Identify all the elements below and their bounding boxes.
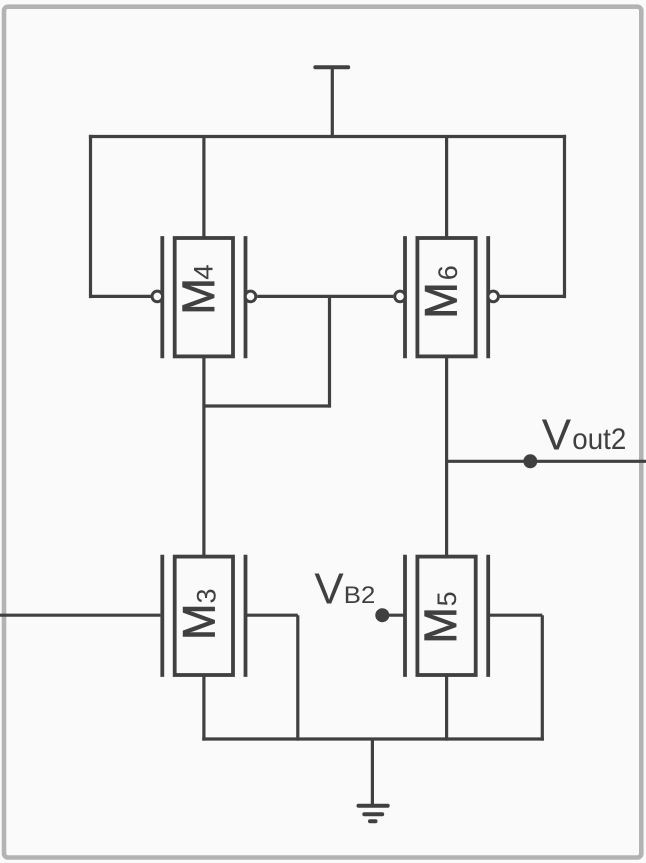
wire VB2 to M5 gate bbox=[382, 614, 404, 617]
svg-text:out2: out2 bbox=[572, 423, 626, 456]
wire M6 top lead (source to rail) bbox=[445, 137, 448, 238]
power VDD stem bbox=[331, 67, 334, 136]
wire M4 gate to M6 gate bbox=[257, 295, 393, 298]
svg-text:M: M bbox=[415, 607, 466, 643]
wire M5 source lead bbox=[445, 674, 448, 741]
ground stem bbox=[371, 739, 374, 806]
wire M3 source lead bbox=[202, 674, 205, 741]
wire left loop vertical bbox=[89, 135, 92, 298]
ground symbol bars bbox=[359, 806, 388, 822]
svg-text:M: M bbox=[415, 282, 466, 318]
wire M5 right gate vertical to rail bbox=[541, 615, 544, 740]
svg-text:3: 3 bbox=[192, 588, 222, 603]
svg-text:M: M bbox=[173, 604, 224, 640]
svg-text:B2: B2 bbox=[344, 582, 376, 609]
wire right loop vertical bbox=[563, 135, 566, 298]
wire Vout2 output bbox=[447, 460, 646, 463]
wire M3 gate input bbox=[0, 614, 160, 617]
transistor M3 bbox=[162, 555, 245, 677]
wire left loop horizontal to M4 left gate bbox=[91, 295, 151, 298]
wire M5 right gate horizontal bbox=[488, 614, 542, 617]
label M3 bbox=[173, 588, 224, 639]
svg-text:V: V bbox=[314, 565, 344, 614]
label M5 bbox=[415, 591, 466, 643]
wire M3 right gate vertical to rail bbox=[296, 615, 299, 740]
wire gate-drain tie horizontal bbox=[204, 404, 330, 407]
svg-text:4: 4 bbox=[189, 264, 219, 280]
node VB2 junction dot bbox=[375, 608, 389, 622]
wire top rail bbox=[89, 135, 566, 138]
wire M6 drain to M5 drain bbox=[445, 356, 448, 558]
svg-text:5: 5 bbox=[432, 591, 462, 606]
wire M4 drain to M3 drain bbox=[202, 356, 205, 558]
node Vout2 junction dot bbox=[523, 454, 537, 468]
svg-text:M: M bbox=[173, 278, 224, 314]
svg-text:V: V bbox=[542, 410, 572, 459]
wire right loop horizontal to M6 right gate bbox=[500, 295, 565, 298]
wire bottom rail bbox=[202, 737, 544, 740]
transistor M4 bbox=[152, 236, 256, 358]
wire M4 top lead (source to rail) bbox=[202, 137, 205, 238]
power VDD bar bbox=[315, 65, 348, 69]
wire gate-drain tie vertical bbox=[328, 296, 331, 407]
svg-text:6: 6 bbox=[433, 265, 463, 280]
node Vout2 label bbox=[542, 410, 627, 459]
wire M3 right gate horizontal bbox=[246, 614, 298, 617]
transistor M5 bbox=[405, 555, 488, 677]
label M4 bbox=[173, 264, 224, 314]
label M6 bbox=[415, 265, 466, 318]
node VB2 label bbox=[314, 565, 375, 614]
transistor M6 bbox=[395, 236, 499, 358]
